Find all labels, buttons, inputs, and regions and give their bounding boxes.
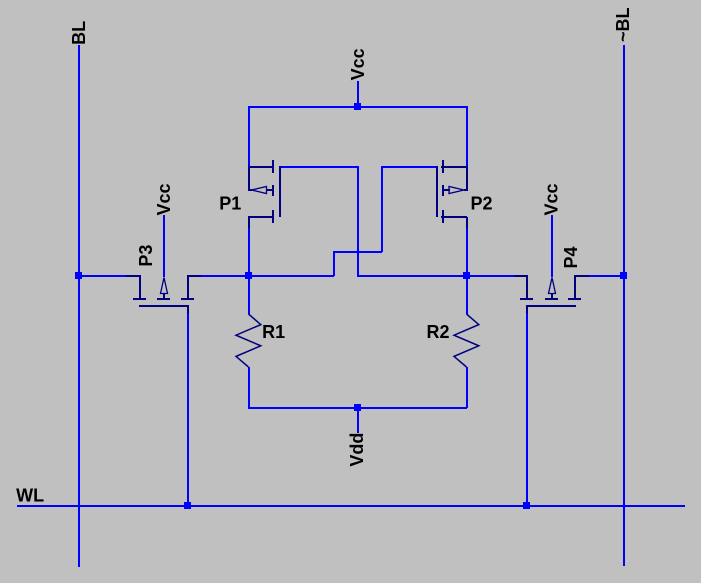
- svg-text:R1: R1: [262, 322, 285, 342]
- node Vcc top junction: [354, 103, 361, 110]
- wire P4 gate down to WL: [526, 313, 528, 505]
- wire R2 to bottom rail: [466, 367, 468, 408]
- transistor P1 bulk arrow: [252, 187, 267, 194]
- transistor P3 bulk arrow: [161, 278, 168, 294]
- wire right node to R2: [466, 276, 468, 314]
- svg-text:WL: WL: [16, 486, 44, 506]
- transistor P4 bulk arrow: [549, 278, 556, 294]
- wire P3 right terminal to left node: [188, 275, 248, 277]
- wire Vdd stub: [357, 408, 359, 433]
- wire P4 right terminal to ~BL node: [575, 275, 623, 277]
- wire P2 source down to right node: [466, 228, 468, 276]
- wire top Vcc rail: [248, 106, 467, 108]
- node WL-P4 junction: [523, 502, 530, 509]
- svg-text:Vdd: Vdd: [347, 433, 367, 467]
- node left internal: [245, 272, 252, 279]
- wire R1 to bottom rail: [248, 367, 250, 408]
- wire A vertical: [357, 166, 359, 276]
- svg-text:P1: P1: [219, 194, 241, 214]
- node WL-P3 junction: [184, 502, 191, 509]
- wire B jog horizontal: [333, 251, 382, 253]
- wire Vcc stub top: [357, 81, 359, 106]
- wire Vcc stub to P4 bulk arrow: [551, 215, 553, 277]
- wire P3 gate down to WL: [187, 313, 189, 505]
- svg-text:P2: P2: [471, 194, 493, 214]
- transistor P1: [248, 160, 281, 228]
- wire left node to R1: [248, 276, 250, 314]
- wire left drop from rail to P1: [248, 106, 250, 166]
- svg-text:P3: P3: [136, 245, 156, 267]
- wire B vertical 2: [333, 251, 335, 276]
- wire B vertical 1: [381, 166, 383, 252]
- wire WL horizontal word line: [17, 505, 685, 507]
- svg-text:BL: BL: [69, 21, 89, 45]
- node BL junction: [75, 272, 82, 279]
- wire BL node to P3 left terminal: [81, 275, 140, 277]
- svg-text:Vcc: Vcc: [542, 183, 562, 215]
- resistor R2: [454, 314, 479, 367]
- wire right node to P4 left terminal: [467, 275, 527, 277]
- transistor P4: [514, 275, 589, 313]
- wire B P2 gate horizontal: [381, 166, 437, 168]
- transistor P2 bulk arrow: [449, 187, 464, 194]
- wire A P1 gate to right node horizontal: [280, 166, 359, 168]
- svg-text:P4: P4: [561, 246, 581, 268]
- wire bottom Vdd rail: [248, 407, 467, 409]
- transistor P2: [436, 160, 468, 228]
- svg-text:R2: R2: [427, 322, 450, 342]
- wire B to left node: [248, 275, 334, 277]
- wire ~BL vertical bit line: [623, 45, 625, 566]
- wire right drop from rail to P2: [466, 106, 468, 166]
- svg-text:~BL: ~BL: [613, 8, 633, 43]
- wire P1 source down to left node: [248, 228, 250, 276]
- svg-text:Vcc: Vcc: [348, 48, 368, 80]
- transistor P3: [126, 275, 201, 313]
- wire A to right node: [357, 275, 466, 277]
- node Vdd bottom junction: [354, 404, 361, 411]
- node ~BL junction: [620, 272, 627, 279]
- resistor R1: [236, 314, 261, 367]
- wire BL vertical bit line: [78, 45, 80, 567]
- svg-text:Vcc: Vcc: [154, 183, 174, 215]
- node right internal: [463, 272, 470, 279]
- wire Vcc stub to P3 bulk arrow: [163, 215, 165, 277]
